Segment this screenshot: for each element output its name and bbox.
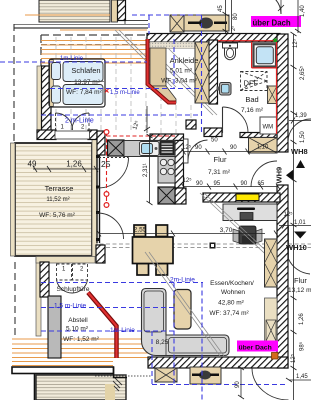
orange roofline band bottom-left	[12, 339, 148, 366]
vanity below south wall	[190, 367, 221, 384]
roof block top-left	[39, 0, 110, 22]
upper apartment vanity	[184, 15, 229, 31]
svg-text:1,45: 1,45	[296, 374, 308, 380]
svg-text:über Dach: über Dach	[239, 345, 272, 352]
armchair/stove dark	[233, 226, 262, 244]
svg-text:Abstell: Abstell	[68, 317, 88, 324]
wall ankleide/bad divider	[209, 40, 218, 104]
wall stub flur north-west	[186, 120, 196, 129]
dimension chain terrace	[33, 166, 99, 172]
svg-text:WF: 7,84 m²: WF: 7,84 m²	[66, 89, 103, 96]
tall cabinet right X	[265, 239, 278, 287]
svg-text:11,52 m²: 11,52 m²	[46, 197, 69, 203]
bottom-left heavy band	[12, 367, 127, 400]
red wall abstell diagonal	[88, 293, 117, 359]
Terrasse deck	[15, 143, 92, 256]
arrows WH9 entry	[296, 160, 305, 168]
svg-text:90: 90	[241, 181, 248, 187]
dotted line bottom	[95, 375, 152, 377]
svg-text:42,80 m²: 42,80 m²	[218, 300, 244, 307]
rafter dashed verticals Schlafen	[56, 37, 191, 133]
svg-text:DFF: DFF	[244, 79, 259, 88]
svg-text:Essen/Kochen/: Essen/Kochen/	[210, 280, 254, 287]
svg-text:65: 65	[258, 181, 265, 187]
wall top (north exterior)	[147, 34, 280, 43]
wall bad south piece 1	[204, 128, 222, 137]
section dashed line pair horizontal	[93, 244, 311, 248]
burners	[160, 159, 174, 174]
dimension 2,31 top wall tick	[144, 106, 150, 133]
svg-text:2,31¹: 2,31¹	[143, 163, 149, 177]
svg-text:Flur: Flur	[294, 276, 307, 285]
dimension bottom 90	[238, 366, 244, 399]
svg-text:50: 50	[211, 138, 218, 144]
schlafen door threshold	[55, 131, 90, 139]
X-box below south wall	[155, 368, 177, 382]
wall bad south piece 2	[240, 133, 277, 138]
DFF dashed box	[241, 72, 268, 91]
hinge dots terrace doors	[96, 155, 100, 241]
svg-text:8,25: 8,25	[156, 339, 169, 346]
svg-text:1m-Linie: 1m-Linie	[110, 327, 135, 334]
wall kitchen east	[175, 141, 184, 189]
toilet	[223, 43, 238, 60]
WH10 door leaf and arc	[288, 226, 290, 259]
sink	[140, 142, 160, 156]
svg-text:1m-Linie: 1m-Linie	[60, 56, 84, 62]
svg-text:13,97 m²: 13,97 m²	[74, 79, 100, 86]
bad door leaf and arc	[223, 107, 249, 133]
svg-text:1,39: 1,39	[295, 113, 307, 119]
svg-text:2,65⁵: 2,65⁵	[299, 65, 306, 80]
sofa L-shape	[142, 289, 230, 356]
bottom right door arc	[252, 369, 289, 400]
svg-text:7,16 m²: 7,16 m²	[241, 107, 264, 114]
roof slope diagonals top	[115, 30, 217, 115]
bad side cabinet X	[268, 86, 278, 104]
svg-text:49: 49	[28, 160, 37, 169]
green dot	[274, 39, 278, 43]
wall terrace north-west piece	[37, 130, 56, 140]
yellow window in flur south wall	[236, 194, 259, 201]
second door arc living SW	[98, 213, 124, 239]
roof slope diagonals living room	[145, 193, 277, 356]
wall abstell west hatch	[40, 262, 49, 297]
insulation strip below top wall	[150, 42, 217, 49]
wall ankleide west (beige)	[150, 48, 166, 86]
svg-text:2m-Linie: 2m-Linie	[170, 277, 195, 284]
dimension chain flur B	[182, 184, 281, 190]
svg-text:WF: 3,04 m²: WF: 3,04 m²	[161, 78, 198, 85]
armchair tan	[174, 290, 191, 330]
bed	[49, 59, 105, 107]
svg-text:13,12 m: 13,12 m	[288, 287, 311, 294]
dining table	[133, 225, 174, 275]
Schlupftuere door dashed leaves	[57, 264, 88, 293]
svg-text:90: 90	[195, 145, 202, 151]
hatch pillar top	[118, 0, 126, 21]
svg-text:2 m-Linie: 2 m-Linie	[65, 118, 94, 125]
kitchen counter vertical	[158, 157, 175, 184]
svg-text:12⁵: 12⁵	[290, 353, 297, 363]
WH8 door arc	[288, 119, 311, 142]
svg-text:90: 90	[196, 181, 203, 187]
wall kitchen north	[150, 134, 184, 141]
door lintel 1,10 box	[249, 138, 278, 154]
orange line over roof block	[25, 14, 110, 16]
terrace south beige band	[36, 257, 95, 264]
dim marker square	[210, 243, 216, 249]
X on duct strip lower	[266, 320, 276, 341]
svg-text:1,5 m-Linie: 1,5 m-Linie	[54, 303, 87, 310]
Terrasse side strips	[11, 66, 98, 336]
dashed roof-edge rectangle top	[41, 35, 147, 66]
svg-text:WH10: WH10	[286, 243, 307, 252]
svg-text:98⁵: 98⁵	[299, 341, 306, 351]
wall right (east exterior) upper	[277, 34, 288, 152]
svg-text:95: 95	[214, 181, 221, 187]
svg-text:Terrasse: Terrasse	[45, 184, 74, 193]
eaves lines top	[14, 21, 148, 29]
wall terrace south-east corner	[96, 245, 105, 263]
Ankleide wardrobe strip	[195, 42, 209, 103]
dimension right column	[279, 32, 311, 400]
wall bottom (south exterior)	[148, 357, 288, 368]
svg-text:45: 45	[218, 5, 224, 12]
hatch wedge bottom-left roof corner	[113, 376, 122, 391]
svg-text:3,70: 3,70	[220, 227, 233, 234]
svg-text:2⁵: 2⁵	[230, 26, 237, 31]
wall abstell west gray	[48, 296, 61, 358]
svg-text:WH9: WH9	[275, 167, 284, 184]
kitchen counter top row	[124, 141, 175, 157]
dimension top right verticals	[223, 0, 302, 33]
red wall ankleide edge	[148, 39, 177, 103]
svg-text:WF: 1,52 m²: WF: 1,52 m²	[63, 336, 100, 343]
magenta label bottom	[237, 341, 278, 352]
svg-text:Schlupftüre: Schlupftüre	[57, 286, 90, 293]
wall right (east exterior) lower	[277, 185, 288, 368]
island sideboard	[223, 204, 277, 221]
svg-text:1,10: 1,10	[257, 145, 269, 151]
svg-text:Wohnen: Wohnen	[221, 289, 245, 296]
dimension chain flur A	[182, 149, 278, 155]
svg-text:90: 90	[230, 145, 237, 151]
terrace-living door arc	[98, 158, 129, 189]
svg-text:1,40: 1,40	[300, 5, 306, 17]
terrace door east jamb lines	[97, 155, 100, 243]
svg-text:90: 90	[235, 381, 241, 388]
apartment entry door arc WH9	[251, 161, 277, 187]
orange roofline band top	[41, 30, 147, 63]
wall flur south	[203, 193, 280, 202]
svg-text:Flur: Flur	[214, 155, 227, 164]
boundary dashed line left	[14, 24, 15, 339]
svg-text:WF: 5,76 m²: WF: 5,76 m²	[39, 212, 76, 219]
washbasin bad	[217, 83, 232, 96]
inner dashed line top	[41, 44, 147, 46]
shower	[254, 44, 277, 66]
svg-text:12⁵: 12⁵	[183, 177, 193, 184]
svg-text:25: 25	[101, 159, 111, 169]
red lines bad	[218, 41, 277, 134]
magenta label top	[251, 16, 301, 28]
WH10 down triangle	[294, 232, 307, 239]
wall terrace north-east piece	[88, 130, 97, 140]
svg-text:1,26: 1,26	[299, 313, 305, 325]
svg-text:1,01: 1,01	[294, 220, 306, 226]
stove striped box	[160, 142, 174, 156]
svg-text:2,55: 2,55	[134, 227, 147, 234]
wall kitchen east lower piece	[175, 188, 186, 204]
door arc top-right (upper apartment)	[259, 0, 281, 14]
dimension kitchen vertical	[147, 134, 153, 205]
beige duct strip right	[265, 298, 278, 341]
red dashed plumbing line kitchen	[107, 132, 176, 205]
beige pillar top	[112, 0, 118, 22]
svg-text:12⁵: 12⁵	[182, 144, 192, 151]
svg-text:über Dach: über Dach	[253, 19, 291, 28]
Schlafen door double arcs	[56, 113, 90, 130]
svg-text:WM: WM	[263, 125, 274, 131]
roof block bottom-left	[36, 375, 126, 400]
svg-text:7,31 m²: 7,31 m²	[208, 169, 231, 176]
svg-text:Ankleide: Ankleide	[170, 56, 199, 65]
flur-living door leaf and arc	[184, 139, 208, 163]
wall Schlafen west	[42, 66, 52, 132]
svg-text:1,50: 1,50	[300, 131, 306, 143]
svg-text:1,5 m-Linie: 1,5 m-Linie	[110, 90, 140, 96]
svg-text:12⁵: 12⁵	[284, 211, 294, 218]
wall terrace east pillar	[97, 131, 105, 155]
orange square bottom right	[272, 353, 279, 360]
svg-text:5,01 m²: 5,01 m²	[170, 68, 193, 75]
svg-text:Bad: Bad	[245, 95, 258, 104]
svg-text:12⁵: 12⁵	[292, 38, 299, 48]
svg-text:5,10 m²: 5,10 m²	[66, 326, 89, 333]
svg-text:1,26: 1,26	[66, 160, 82, 169]
svg-text:WF: 37,74 m²: WF: 37,74 m²	[209, 310, 249, 317]
svg-text:Schlafen: Schlafen	[71, 66, 100, 75]
svg-text:80: 80	[233, 13, 239, 20]
WM box	[260, 117, 277, 134]
upper apartment wardrobe X-box	[170, 15, 184, 32]
dimension 3,70	[97, 231, 278, 237]
kitchen chimney 2	[158, 187, 175, 204]
kitchen chimney 1	[108, 140, 125, 156]
